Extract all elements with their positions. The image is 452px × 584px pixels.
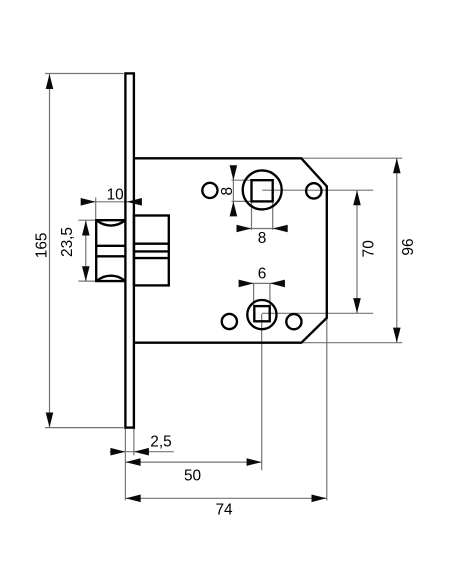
- svg-text:8: 8: [219, 187, 236, 196]
- svg-text:10: 10: [107, 187, 124, 204]
- svg-text:70: 70: [360, 240, 377, 257]
- svg-text:2,5: 2,5: [150, 433, 171, 450]
- svg-text:96: 96: [400, 238, 417, 255]
- svg-text:165: 165: [34, 233, 51, 259]
- svg-text:74: 74: [215, 501, 233, 518]
- svg-text:50: 50: [184, 467, 201, 484]
- svg-text:23,5: 23,5: [59, 227, 76, 257]
- svg-text:8: 8: [258, 230, 267, 247]
- svg-text:6: 6: [258, 266, 267, 283]
